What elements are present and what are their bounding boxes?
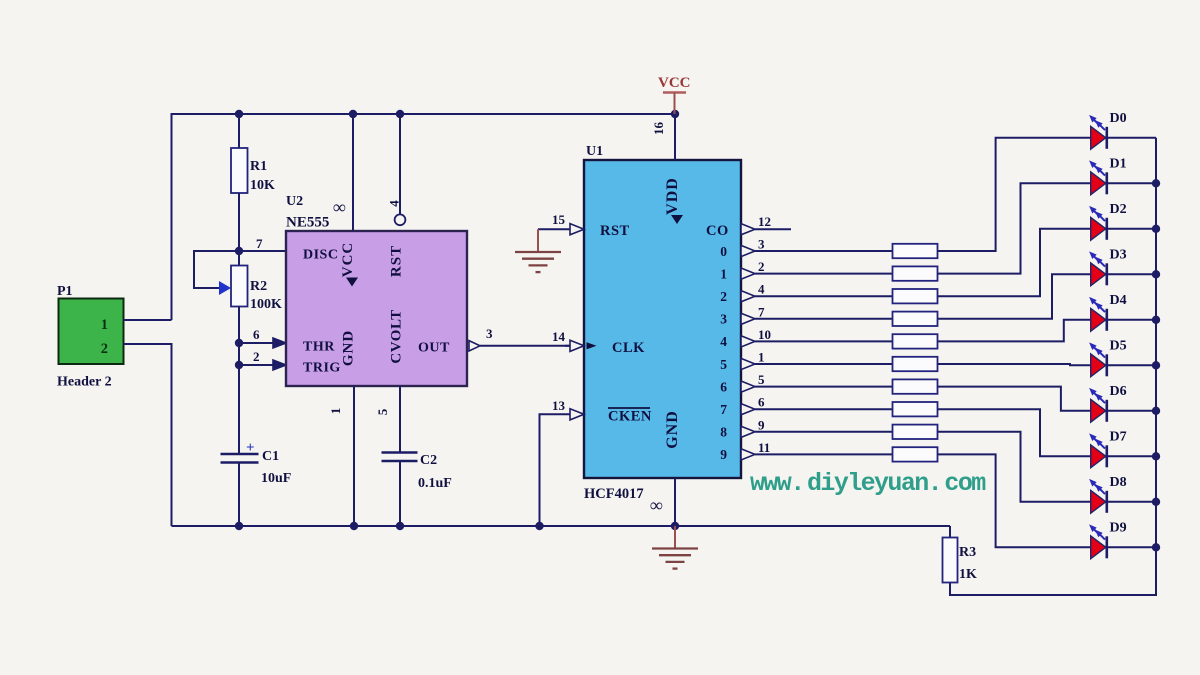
svg-text:D9: D9 (1110, 520, 1127, 535)
wire TRIG (239, 364, 273, 366)
resistor row 1 (893, 266, 938, 280)
U1 RST input arrow (570, 224, 584, 235)
U1 output 8 arrow (741, 426, 755, 437)
wire resistor 5 to LED D5 (938, 364, 1091, 365)
svg-text:D7: D7 (1110, 429, 1127, 444)
wire VDD pin16 (674, 114, 676, 160)
svg-text:6: 6 (758, 395, 765, 410)
svg-text:15: 15 (552, 212, 566, 227)
LED D1 (1089, 160, 1107, 194)
U1 output 1 arrow (741, 268, 755, 279)
svg-text:8: 8 (720, 425, 727, 440)
U1 output 6 arrow (741, 381, 755, 392)
wire resistor 8 to LED D8 (938, 432, 1091, 502)
svg-text:VCC: VCC (340, 242, 356, 278)
wire CLK stub (565, 345, 570, 347)
U1 output 9 arrow (741, 449, 755, 460)
svg-text:D5: D5 (1110, 338, 1127, 353)
resistor row 9 (893, 447, 938, 461)
U1 output 4 arrow (741, 336, 755, 347)
wire U1 out3 to resistor (755, 318, 893, 320)
svg-text:www. diyleyuan. com: www. diyleyuan. com (750, 469, 986, 498)
wire U2 GND pin1 to rail (353, 386, 355, 526)
wire U2 CVOLT pin5 to C2 (399, 386, 401, 453)
svg-text:4: 4 (758, 282, 765, 297)
svg-text:U1: U1 (586, 144, 603, 159)
svg-text:2: 2 (101, 341, 108, 357)
svg-text:2: 2 (253, 349, 260, 364)
junction gnd rail / U1 GND (671, 522, 679, 530)
wire LED D1 cathode to rail (1107, 182, 1156, 184)
wire resistor 7 to LED D7 (938, 409, 1091, 456)
svg-text:RST: RST (389, 245, 405, 277)
svg-text:7: 7 (758, 304, 765, 319)
wire rail to U2 VCC pin8 (352, 114, 354, 231)
wire rail to U2 RST pin4 (399, 114, 401, 214)
resistor row 7 (893, 402, 938, 416)
junction gnd rail / C2 (396, 522, 404, 530)
junction rail D6 (1152, 407, 1160, 415)
wire U1 out7 to resistor (755, 408, 893, 410)
R2 wiper arrow (219, 281, 231, 295)
wire LED D8 cathode to rail (1107, 501, 1156, 503)
svg-text:10K: 10K (250, 178, 275, 193)
capacitor C1 (221, 440, 259, 463)
svg-text:5: 5 (720, 357, 727, 372)
svg-text:+: + (246, 440, 255, 456)
U2 VCC arrow (346, 278, 358, 287)
svg-text:2: 2 (758, 259, 765, 274)
svg-text:5: 5 (758, 372, 765, 387)
svg-text:D6: D6 (1110, 384, 1127, 399)
wire OUT to CLK (480, 345, 570, 347)
wire resistor 9 to LED D9 (938, 454, 1091, 547)
svg-text:R2: R2 (250, 279, 267, 294)
svg-text:3: 3 (758, 237, 765, 252)
wire LED D6 cathode to rail (1107, 410, 1156, 412)
svg-text:HCF4017: HCF4017 (584, 486, 644, 502)
wire C2 to gnd rail (399, 461, 401, 526)
wire U1 GND pin8 to rail (674, 478, 676, 526)
LED D4 (1089, 297, 1107, 331)
svg-text:OUT: OUT (418, 341, 450, 356)
svg-text:D3: D3 (1110, 247, 1127, 262)
svg-text:9: 9 (720, 447, 727, 462)
junction TRIG (235, 361, 243, 369)
wire resistor 3 to LED D3 (938, 274, 1091, 319)
wire U1 out5 to resistor (755, 363, 893, 365)
wire LED D3 cathode to rail (1107, 273, 1156, 275)
resistor row 8 (893, 425, 938, 439)
junction top rail / U1 VDD (671, 110, 679, 118)
LED D5 (1089, 342, 1107, 376)
U1 CO output arrow (741, 224, 755, 235)
junction rail D5 (1152, 361, 1160, 369)
junction gnd rail / U2 GND (350, 522, 358, 530)
wire LED D2 cathode to rail (1107, 228, 1156, 230)
capacitor C2 (382, 453, 418, 462)
svg-text:RST: RST (600, 223, 630, 239)
svg-text:U2: U2 (286, 194, 303, 209)
wire LED D7 cathode to rail (1107, 455, 1156, 457)
junction top rail / R1 (235, 110, 243, 118)
resistor row 6 (893, 379, 938, 393)
wire U1 out9 to resistor (755, 453, 893, 455)
CKEN overline (608, 407, 650, 409)
svg-text:2: 2 (720, 289, 727, 304)
svg-text:R1: R1 (250, 159, 267, 174)
wire LED D9 cathode to rail (1107, 546, 1156, 548)
junction rail D7 (1152, 452, 1160, 460)
wire U1 out4 to resistor (755, 340, 893, 342)
wire P1 pin2 to ground rail (124, 344, 172, 526)
svg-text:VCC: VCC (658, 75, 691, 91)
wire LED common rail (950, 138, 1156, 595)
resistor R1 (231, 148, 248, 193)
U2 TRIG input arrow (273, 360, 286, 370)
wire resistor 2 to LED D2 (938, 229, 1091, 296)
svg-text:1: 1 (720, 266, 727, 281)
junction node 7 (235, 247, 243, 255)
wire CKEN to gnd rail (540, 414, 571, 526)
svg-text:D0: D0 (1110, 111, 1127, 126)
LED D0 (1089, 115, 1107, 149)
U1 VDD arrow (671, 215, 683, 224)
junction rail D8 (1152, 498, 1160, 506)
svg-text:D1: D1 (1110, 156, 1127, 171)
wire U1 out8 to resistor (755, 431, 893, 433)
svg-text:1: 1 (328, 408, 343, 415)
resistor row 3 (893, 312, 938, 326)
svg-text:GND: GND (341, 330, 357, 366)
LED D8 (1089, 479, 1107, 513)
wire resistor 6 to LED D6 (938, 387, 1091, 411)
wire U1 out2 to resistor (755, 295, 893, 297)
svg-text:NE555: NE555 (286, 215, 329, 231)
junction gnd rail / CKEN (535, 522, 543, 530)
svg-text:3: 3 (720, 312, 727, 327)
VCC power symbol (658, 75, 691, 114)
svg-text:7: 7 (256, 236, 263, 251)
svg-text:3: 3 (486, 326, 493, 341)
LED D7 (1089, 433, 1107, 467)
junction rail D9 (1152, 543, 1160, 551)
U1 output 3 arrow (741, 313, 755, 324)
svg-text:0.1uF: 0.1uF (418, 476, 452, 491)
svg-text:R3: R3 (959, 545, 976, 560)
svg-text:12: 12 (758, 214, 771, 229)
svg-text:10: 10 (758, 327, 771, 342)
svg-text:CLK: CLK (612, 340, 645, 356)
svg-text:1: 1 (101, 317, 108, 333)
wire U1 out6 to resistor (755, 386, 893, 388)
svg-text:Header 2: Header 2 (57, 375, 112, 390)
junction gnd rail / C1 (235, 522, 243, 530)
wire C1 to gnd rail (238, 463, 240, 527)
svg-text:13: 13 (552, 398, 566, 413)
wire P1 pin1 to VCC rail (124, 319, 172, 321)
U1 CLK inner arrow (587, 342, 597, 349)
svg-text:6: 6 (253, 327, 260, 342)
U1 output 5 arrow (741, 358, 755, 369)
resistor R3 (943, 538, 958, 583)
ground G1 (515, 251, 561, 253)
svg-text:100K: 100K (250, 297, 282, 312)
wire CO stub (755, 228, 791, 230)
U1 CLK input arrow (570, 340, 584, 351)
resistor row 4 (893, 334, 938, 348)
svg-text:GND: GND (664, 410, 681, 449)
potentiometer R2 (231, 266, 248, 307)
op-amp U2 NE555 body (286, 231, 467, 386)
svg-text:4: 4 (387, 200, 402, 207)
svg-text:9: 9 (758, 417, 765, 432)
junction rail D3 (1152, 270, 1160, 278)
wire R2 wiper loop (194, 251, 239, 288)
svg-text:1: 1 (758, 350, 765, 365)
U1 output 2 arrow (741, 291, 755, 302)
wire resistor 4 to LED D4 (938, 320, 1091, 342)
wire rail to R1 (238, 114, 240, 148)
ground G2 stem (674, 526, 676, 549)
junction top rail / U2 RST pin4 (396, 110, 404, 118)
wire RST to ground (538, 228, 570, 230)
wire R2 to THR/TRIG/C1 (238, 307, 240, 455)
U1 CKEN input arrow (570, 409, 584, 420)
svg-text:6: 6 (720, 379, 727, 394)
junction rail D2 (1152, 225, 1160, 233)
wire R1 to node7 (238, 193, 240, 266)
resistor row 0 (893, 244, 938, 258)
LED D6 (1089, 388, 1107, 422)
svg-text:0: 0 (720, 244, 727, 259)
junction rail D4 (1152, 316, 1160, 324)
ground G1 stem (RST) (537, 229, 539, 252)
svg-text:C1: C1 (262, 449, 279, 464)
wire LED D0 cathode to rail (1107, 137, 1156, 139)
U1 output 7 arrow (741, 404, 755, 415)
junction rail D1 (1152, 179, 1160, 187)
junction top rail / U2 VCC (349, 110, 357, 118)
LED D2 (1089, 206, 1107, 240)
svg-text:4: 4 (720, 334, 727, 349)
svg-text:11: 11 (758, 440, 770, 455)
U2 OUT arrow (469, 341, 480, 351)
svg-text:14: 14 (552, 329, 566, 344)
svg-text:TRIG: TRIG (303, 361, 341, 376)
svg-text:∞: ∞ (333, 197, 346, 217)
svg-text:5: 5 (375, 408, 390, 415)
wire resistor 1 to LED D1 (938, 183, 1091, 273)
wire VCC top rail (172, 114, 676, 320)
svg-text:DISC: DISC (303, 248, 338, 263)
IC U1 HCF4017 body (584, 160, 741, 478)
LED D9 (1089, 524, 1107, 558)
svg-text:D8: D8 (1110, 475, 1127, 490)
junction THR (235, 339, 243, 347)
header P1 (59, 299, 124, 365)
svg-text:7: 7 (720, 402, 727, 417)
svg-text:10uF: 10uF (261, 471, 291, 486)
wire node7 to U2 DISC (239, 250, 286, 252)
U2 pin4 inverter bubble (395, 214, 406, 225)
wire THR (239, 342, 273, 344)
ground G2 (652, 547, 698, 549)
U2 THR input arrow (273, 338, 286, 348)
svg-text:CKEN: CKEN (608, 409, 652, 425)
svg-text:CO: CO (706, 223, 729, 239)
wire U1 out0 to resistor (755, 250, 893, 252)
wire LED D5 cathode to rail (1107, 364, 1156, 366)
svg-text:16: 16 (651, 122, 666, 136)
wire U1 out1 to resistor (755, 273, 893, 275)
resistor row 5 (893, 357, 938, 371)
wire bottom ground rail (172, 525, 951, 527)
wire gnd rail to R3 (949, 526, 951, 538)
resistor row 2 (893, 289, 938, 303)
LED D3 (1089, 251, 1107, 285)
svg-text:P1: P1 (57, 284, 73, 299)
svg-text:C2: C2 (420, 453, 437, 468)
wire LED D4 cathode to rail (1107, 319, 1156, 321)
svg-text:D4: D4 (1110, 293, 1127, 308)
wire resistor 0 to LED D0 (938, 138, 1091, 251)
svg-text:1K: 1K (959, 567, 977, 582)
svg-text:∞: ∞ (650, 495, 663, 515)
U1 output 0 arrow (741, 245, 755, 256)
svg-text:CVOLT: CVOLT (389, 309, 405, 363)
svg-text:VDD: VDD (664, 177, 681, 215)
svg-text:THR: THR (303, 340, 335, 355)
svg-text:D2: D2 (1110, 202, 1127, 217)
